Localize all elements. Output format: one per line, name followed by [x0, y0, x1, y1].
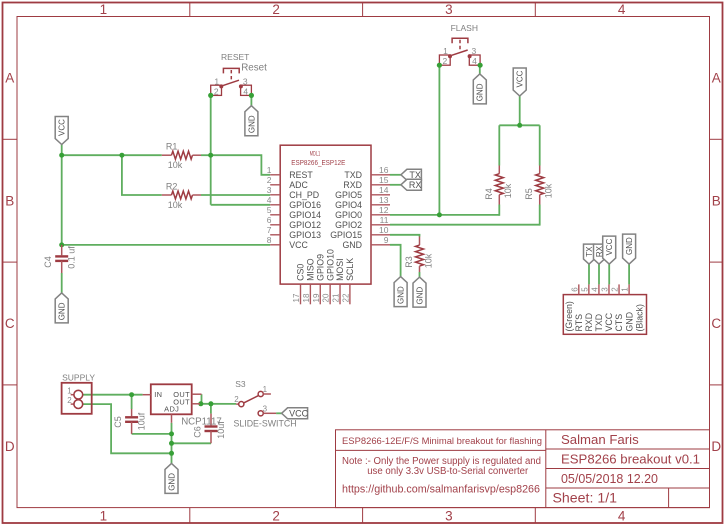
- pushbutton RESET: wire attach pads: [208, 93, 213, 98]
- S3 lever: [244, 396, 259, 403]
- svg-text:1: 1: [263, 385, 268, 394]
- svg-text:RESET: RESET: [221, 52, 249, 62]
- wire: SUPPLY pin2 to ground rail: [83, 404, 172, 453]
- title block notes row divider: [336, 449, 546, 451]
- wire: FLASH pin2 down to GPIO0 net: [438, 65, 440, 215]
- svg-text:20: 20: [322, 293, 331, 302]
- svg-text:SCLK: SCLK: [345, 258, 355, 281]
- frame row tick marks right: [710, 138, 724, 140]
- svg-text:GPIO2: GPIO2: [335, 220, 362, 230]
- svg-text:GPIO4: GPIO4: [335, 200, 362, 210]
- svg-text:GPIO0: GPIO0: [335, 210, 362, 220]
- module pin 17 CS0: [300, 284, 302, 304]
- serial header pin 5 RXD: [588, 284, 590, 294]
- svg-text:SLIDE-SWITCH: SLIDE-SWITCH: [234, 418, 297, 428]
- svg-text:9: 9: [384, 235, 389, 245]
- GND flag below module pin 9: [394, 277, 407, 307]
- svg-text:GND: GND: [247, 115, 256, 133]
- wire: RESET net to module pin 1 REST: [211, 155, 271, 175]
- module pin 14 GPIO5: [371, 194, 390, 196]
- svg-text:GPIO13: GPIO13: [289, 230, 321, 240]
- svg-text:SUPPLY: SUPPLY: [62, 373, 95, 383]
- svg-text:3: 3: [445, 2, 453, 17]
- wire: R4 bottom elbow: [498, 205, 500, 216]
- wire: module pin 10 GPIO15 to R3 top: [390, 235, 420, 237]
- module pin 3 CH_PD: [270, 194, 280, 196]
- junction FLASH / GPIO0: [437, 212, 442, 217]
- svg-text:17: 17: [292, 293, 301, 302]
- svg-text:B: B: [5, 193, 14, 208]
- svg-text:3: 3: [472, 46, 477, 56]
- svg-text:MISO: MISO: [306, 258, 316, 281]
- svg-text:4: 4: [618, 2, 626, 17]
- svg-text:10k: 10k: [168, 200, 183, 210]
- svg-text:ESP8266 breakout v0.1: ESP8266 breakout v0.1: [561, 452, 700, 467]
- svg-text:FLASH: FLASH: [451, 23, 478, 33]
- wire: tee across R4 and R5 tops: [499, 124, 539, 126]
- wire: junction down to C5 top: [131, 395, 133, 409]
- svg-text:Salman Faris: Salman Faris: [561, 432, 639, 447]
- S3 pin 3: [258, 411, 263, 416]
- wire: C5 bottom to ADJ junction: [132, 433, 172, 435]
- capacitor C6 10uf: [210, 414, 212, 426]
- svg-text:MOSI: MOSI: [335, 258, 345, 280]
- module pin 2 ADC: [270, 184, 280, 186]
- svg-text:VCC: VCC: [605, 238, 614, 255]
- svg-text:10k: 10k: [168, 160, 183, 170]
- SUPPLY pin 1: [71, 394, 74, 396]
- svg-text:TXD: TXD: [594, 314, 604, 332]
- wire: R2 right to module pin 3 CH_PD: [201, 194, 270, 196]
- svg-text:RXD: RXD: [584, 313, 594, 332]
- resistor R1 10k: [162, 154, 172, 156]
- svg-text:10k: 10k: [423, 253, 433, 268]
- pushbutton FLASH: actuator bracket: [452, 38, 468, 43]
- serial header pin 6 RTS: [578, 284, 580, 294]
- wire: module pin 9 GND to GND flag: [390, 245, 401, 277]
- wire: VCC supply vertical rail from VCC flag down to C4 junction: [61, 145, 63, 245]
- svg-text:RTS: RTS: [574, 314, 584, 332]
- svg-text:R1: R1: [166, 142, 178, 152]
- svg-text:GPIO12: GPIO12: [289, 220, 321, 230]
- svg-text:GND: GND: [167, 473, 176, 491]
- wire: serial pin 5 to TX flag: [588, 264, 590, 284]
- title block info row dividers: [546, 448, 710, 450]
- wire: R3 bottom to GND flag: [419, 272, 421, 277]
- svg-text:S3: S3: [235, 379, 246, 389]
- svg-text:MDL1: MDL1: [310, 150, 321, 157]
- module pin 16 TXD: [371, 174, 390, 176]
- svg-text:C4: C4: [43, 256, 53, 268]
- capacitor C4 0.1 uf: [61, 245, 63, 255]
- pushbutton FLASH: left contact (pins 1-2): [439, 55, 450, 65]
- frame row tick marks left: [3, 138, 18, 140]
- junction VCC / R4 R5 tee: [517, 123, 522, 128]
- svg-text:14: 14: [379, 185, 389, 195]
- SUPPLY pin 2: [71, 403, 74, 405]
- wire: branch down to R2 left: [122, 155, 162, 195]
- wire: VCC rail to R1 left: [62, 154, 162, 156]
- wire: down to R4 top: [498, 125, 500, 165]
- module pin 20 GPIO10: [329, 284, 331, 304]
- svg-text:RX: RX: [409, 180, 422, 190]
- pushbutton FLASH (offset by +228.7,-30.2): [437, 38, 483, 68]
- module pin 9 GND: [371, 244, 390, 246]
- GND flag below voltage regulator: [165, 463, 178, 493]
- svg-text:VCC: VCC: [58, 119, 67, 136]
- svg-text:GND: GND: [476, 83, 485, 101]
- regulator pin ADJ stub: [171, 414, 173, 423]
- svg-text:2: 2: [214, 86, 219, 96]
- TX net flag on pin 16: [401, 169, 422, 180]
- junction gnd rail / supply pin2: [169, 451, 174, 456]
- wire: VCC flag down to R4/R5 tee: [519, 96, 521, 125]
- svg-text:A: A: [712, 71, 721, 86]
- svg-text:4: 4: [267, 195, 272, 205]
- svg-text:GPIO10: GPIO10: [325, 249, 335, 281]
- wire: regulator ADJ down to GND flag: [171, 423, 173, 464]
- svg-text:1: 1: [214, 76, 219, 86]
- svg-text:2: 2: [67, 396, 72, 405]
- svg-text:1: 1: [100, 2, 108, 17]
- svg-text:(Green): (Green): [564, 301, 574, 331]
- capacitor C5 10uf: [131, 409, 133, 416]
- svg-text:5: 5: [580, 287, 589, 292]
- svg-text:VCC: VCC: [604, 312, 614, 331]
- junction R1 left / R2 branch: [119, 153, 124, 158]
- VCC flag at S3 pin 3 (horizontal): [282, 408, 308, 419]
- svg-text:GPIO14: GPIO14: [289, 210, 321, 220]
- junction OUT net / C6: [208, 401, 213, 406]
- svg-text:13: 13: [379, 195, 389, 205]
- title block divider between notes and info columns: [545, 430, 547, 508]
- svg-text:GND: GND: [397, 286, 406, 304]
- svg-text:1: 1: [67, 387, 72, 396]
- module pin 22 SCLK: [349, 284, 351, 304]
- module pin 4 GPIO16: [270, 204, 280, 206]
- GND flag below R3: [413, 277, 426, 307]
- svg-text:Sheet: 1/1: Sheet: 1/1: [553, 491, 618, 506]
- svg-text:https://github.com/salmanfaris: https://github.com/salmanfarisvp/esp8266: [342, 484, 540, 496]
- junction supply / C5: [129, 392, 134, 397]
- RX net flag on pin 15: [401, 179, 422, 190]
- S3 pin 2: [236, 403, 239, 405]
- resistor R3 10k: [419, 237, 421, 246]
- svg-text:REST: REST: [289, 170, 313, 180]
- module pin 10 GPIO15: [371, 234, 390, 236]
- wire: VCC rail to module pin 8 VCC: [62, 244, 271, 246]
- svg-text:7: 7: [267, 225, 272, 235]
- svg-text:VCC: VCC: [289, 409, 309, 419]
- wire: S3 pin 3 to VCC flag: [276, 412, 282, 414]
- VCC flag above R4/R5: [513, 68, 526, 96]
- wire: module pin 11 GPIO2 to R5 bottom: [390, 224, 540, 226]
- regulator pin IN stub: [143, 394, 151, 396]
- junction ADJ / C5 gnd: [169, 431, 174, 436]
- svg-text:ESP8266_ESP12E: ESP8266_ESP12E: [291, 160, 345, 167]
- serial header pin 4 TXD: [598, 284, 600, 294]
- serial header connector outline: [563, 295, 646, 335]
- svg-text:1: 1: [100, 509, 108, 524]
- svg-text:R5: R5: [524, 188, 534, 200]
- module pin 5 GPIO14: [270, 214, 280, 216]
- svg-text:RXD: RXD: [343, 180, 362, 190]
- svg-text:GPIO9: GPIO9: [315, 254, 325, 281]
- pushbutton FLASH: lever: [449, 50, 468, 56]
- svg-text:TX: TX: [585, 246, 594, 257]
- svg-text:R2: R2: [166, 181, 178, 191]
- svg-text:VCC: VCC: [289, 240, 308, 250]
- module pin 18 MISO: [309, 284, 311, 304]
- svg-text:15: 15: [379, 175, 389, 185]
- svg-text:3: 3: [243, 76, 248, 86]
- regulator pin OUT1 stub: [192, 393, 202, 395]
- junction gnd rail / C6: [169, 441, 174, 446]
- junction VCC rail / C4: [59, 242, 64, 247]
- svg-text:NCP1117: NCP1117: [181, 416, 222, 427]
- resistor R5 10k: [539, 166, 541, 174]
- svg-text:ADC: ADC: [289, 180, 308, 190]
- svg-text:CH_PD: CH_PD: [289, 190, 319, 200]
- svg-text:10k: 10k: [503, 183, 513, 198]
- TX flag at serial pin 5: [584, 244, 595, 264]
- svg-text:22: 22: [341, 293, 350, 302]
- svg-text:21: 21: [332, 293, 341, 302]
- wire: OUT net to S3 pin 2: [200, 403, 236, 405]
- svg-text:CTS: CTS: [614, 314, 624, 332]
- module pin 13 GPIO4: [371, 204, 390, 206]
- frame column tick marks bottom: [189, 508, 191, 523]
- svg-text:2: 2: [443, 56, 448, 66]
- module pin 6 GPIO12: [270, 224, 280, 226]
- junction VCC rail / R1: [59, 153, 64, 158]
- svg-text:16: 16: [379, 165, 389, 175]
- svg-text:use only 3.3v USB-to-Serial co: use only 3.3v USB-to-Serial converter: [367, 466, 529, 477]
- wire: module pin 15 RXD to RX flag: [390, 184, 401, 186]
- S3 pin 1: [258, 391, 263, 396]
- op module MDL1 ESP8266_ESP12E outline: [280, 145, 371, 284]
- svg-text:ESP8266-12E/F/S Minimal breako: ESP8266-12E/F/S Minimal breakout for fla…: [342, 436, 542, 447]
- wire: RESET pin2 down through junction to GPIO16 row: [210, 95, 212, 204]
- wire: C6 bottom to ground rail: [172, 442, 212, 444]
- svg-text:TX: TX: [409, 170, 421, 180]
- svg-text:R3: R3: [404, 256, 414, 268]
- wire: RESET net to module pin 4 GPIO16: [211, 204, 271, 206]
- serial header pin 2 CTS: [618, 284, 620, 294]
- svg-text:GND: GND: [58, 302, 67, 320]
- svg-text:D: D: [5, 439, 15, 454]
- wire: serial pin 3 to VCC flag: [608, 264, 610, 284]
- svg-text:3: 3: [445, 509, 453, 524]
- svg-text:ADJ: ADJ: [164, 404, 179, 413]
- svg-text:8: 8: [267, 235, 272, 245]
- module pin 7 GPIO13: [270, 234, 280, 236]
- VCC supply flag (left rail): [55, 117, 68, 145]
- GND flag at serial pin 1: [623, 234, 636, 264]
- wire: serial pin 4 to RX flag: [598, 264, 600, 284]
- GND flag below FLASH switch: [473, 74, 486, 104]
- pushbutton FLASH: right contact (pins 3-4): [469, 55, 480, 65]
- serial header pin 1 GND: [628, 284, 630, 294]
- svg-text:GND: GND: [624, 312, 634, 332]
- wire: R1 right to RESET net junction: [201, 154, 211, 156]
- svg-text:05/05/2018 12.20: 05/05/2018 12.20: [561, 471, 658, 486]
- pushbutton RESET: actuator bracket: [223, 68, 239, 73]
- svg-text:GND: GND: [625, 237, 634, 255]
- svg-text:10k: 10k: [544, 183, 554, 198]
- svg-text:C6: C6: [192, 426, 202, 438]
- svg-text:18: 18: [302, 293, 311, 302]
- svg-text:1: 1: [443, 46, 448, 56]
- module pin 11 GPIO2: [371, 224, 390, 226]
- svg-text:CS0: CS0: [296, 264, 306, 281]
- svg-text:Reset: Reset: [241, 62, 267, 73]
- svg-text:2: 2: [272, 509, 280, 524]
- module pin 1 REST: [270, 174, 280, 176]
- regulator pin OUT2 stub: [192, 403, 200, 405]
- svg-text:1: 1: [267, 165, 272, 175]
- module pin 15 RXD: [371, 184, 390, 186]
- svg-text:4: 4: [472, 56, 477, 66]
- voltage regulator NCP1117 outline: [151, 384, 192, 414]
- junction R1 right / RESET net: [208, 153, 213, 158]
- svg-text:2: 2: [267, 175, 272, 185]
- wire: R5 bottom elbow: [539, 205, 541, 226]
- svg-text:VCC: VCC: [516, 70, 525, 87]
- svg-text:2: 2: [611, 287, 620, 292]
- GND flag below C4: [55, 293, 68, 323]
- svg-text:4: 4: [590, 287, 599, 292]
- pushbutton FLASH: wire attach pads: [437, 63, 442, 68]
- svg-text:2: 2: [272, 2, 280, 17]
- wire: RESET pin4 to GND flag: [250, 95, 252, 105]
- pushbutton RESET: right contact (pins 3-4): [241, 85, 252, 95]
- svg-text:1: 1: [621, 287, 630, 292]
- svg-text:IN: IN: [154, 390, 162, 399]
- svg-text:B: B: [712, 193, 721, 208]
- module pin 12 GPIO0: [371, 214, 390, 216]
- svg-text:GPIO5: GPIO5: [335, 190, 362, 200]
- junction OUT1 / OUT2: [198, 401, 203, 406]
- svg-text:2: 2: [234, 395, 239, 404]
- wire: C4 bottom to GND flag: [61, 273, 63, 293]
- wire: OUT1 elbow to OUT2 net: [201, 394, 203, 404]
- resistor R4 10k: [498, 166, 500, 174]
- VCC flag at serial pin 3: [603, 236, 616, 264]
- svg-text:GPIO15: GPIO15: [330, 230, 362, 240]
- resistor R2 10k: [162, 194, 172, 196]
- title block sheet cell divider: [668, 488, 670, 508]
- title block outline: [336, 430, 710, 508]
- svg-text:11: 11: [380, 215, 389, 225]
- RX flag at serial pin 4: [594, 244, 605, 264]
- svg-text:C: C: [711, 316, 721, 331]
- module pin 21 MOSI: [339, 284, 341, 304]
- svg-text:C: C: [5, 316, 15, 331]
- svg-text:4: 4: [618, 509, 626, 524]
- svg-text:TXD: TXD: [344, 170, 362, 180]
- svg-text:4: 4: [243, 86, 248, 96]
- wire: down to R5 top: [539, 125, 541, 165]
- svg-text:A: A: [5, 71, 14, 86]
- wire: OUT net down to C6 top: [210, 404, 212, 414]
- svg-text:5: 5: [267, 205, 272, 215]
- wire: module pin 12 GPIO0 to R4 bottom: [390, 214, 499, 216]
- svg-text:GND: GND: [415, 286, 424, 304]
- svg-text:(Black): (Black): [634, 304, 644, 331]
- svg-text:3: 3: [600, 287, 609, 292]
- GND flag below RESET switch: [245, 106, 258, 136]
- module pin 19 GPIO9: [319, 284, 321, 304]
- svg-text:19: 19: [312, 293, 321, 302]
- svg-text:12: 12: [379, 205, 389, 215]
- svg-text:0.1 uf: 0.1 uf: [67, 246, 77, 269]
- wire: serial pin 1 to GND flag: [628, 264, 630, 284]
- module pin 8 VCC: [270, 244, 280, 246]
- pushbutton RESET: lever: [220, 80, 239, 86]
- wire: FLASH pin4 to GND flag: [479, 65, 481, 74]
- svg-text:6: 6: [267, 215, 272, 225]
- svg-text:10: 10: [379, 225, 389, 235]
- svg-text:D: D: [711, 439, 721, 454]
- wire: SUPPLY pin1 to regulator IN: [83, 394, 143, 396]
- svg-text:6: 6: [570, 287, 579, 292]
- svg-text:3: 3: [263, 404, 268, 413]
- connector SUPPLY outline: [62, 383, 92, 414]
- svg-text:R4: R4: [484, 188, 494, 200]
- svg-text:3: 3: [267, 185, 272, 195]
- svg-text:GND: GND: [342, 240, 362, 250]
- serial header pin 3 VCC: [608, 284, 610, 294]
- wire: module pin 16 TXD to TX flag: [390, 174, 401, 176]
- svg-text:C5: C5: [113, 416, 123, 428]
- svg-text:GPIO16: GPIO16: [289, 200, 321, 210]
- frame column tick marks top: [189, 3, 191, 17]
- pushbutton RESET: left contact (pins 1-2): [211, 85, 222, 95]
- svg-text:10uf: 10uf: [137, 412, 147, 430]
